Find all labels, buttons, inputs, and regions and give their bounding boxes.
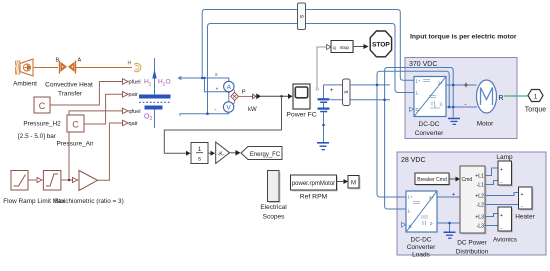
svg-text:s: s bbox=[300, 15, 306, 18]
svg-text:-K-: -K- bbox=[218, 151, 225, 157]
svg-text:qair: qair bbox=[129, 121, 138, 127]
svg-text:370 VDC: 370 VDC bbox=[409, 61, 437, 68]
svg-text:+: + bbox=[521, 192, 524, 198]
svg-text:-: - bbox=[501, 180, 503, 186]
svg-text:Heater: Heater bbox=[515, 214, 535, 221]
svg-text:2-: 2- bbox=[440, 101, 444, 106]
svg-text:-: - bbox=[215, 108, 217, 114]
svg-text:+: + bbox=[216, 86, 219, 92]
svg-text:Input torque is per electric m: Input torque is per electric motor bbox=[410, 34, 517, 41]
svg-text:Scopes: Scopes bbox=[263, 214, 285, 221]
svg-text:Ambient: Ambient bbox=[13, 81, 37, 88]
svg-text:B: B bbox=[56, 58, 60, 64]
svg-text:1-: 1- bbox=[416, 91, 420, 96]
svg-text:1-: 1- bbox=[408, 209, 412, 214]
svg-text:2+: 2+ bbox=[429, 195, 434, 200]
svg-text:STOP: STOP bbox=[372, 42, 390, 49]
svg-text:1+: 1+ bbox=[416, 78, 421, 83]
svg-text:Lamp: Lamp bbox=[496, 154, 513, 161]
svg-text:Converter: Converter bbox=[407, 244, 436, 251]
svg-text:Cmd: Cmd bbox=[462, 177, 473, 183]
svg-text:P: P bbox=[242, 90, 246, 96]
svg-text:+: + bbox=[500, 213, 503, 219]
svg-text:Pressure_H2: Pressure_H2 bbox=[23, 121, 61, 128]
svg-text:Converter: Converter bbox=[415, 130, 444, 137]
svg-text:s: s bbox=[198, 157, 201, 163]
svg-text:q: q bbox=[333, 46, 336, 51]
svg-text:Breaker Cmd: Breaker Cmd bbox=[417, 177, 447, 183]
svg-text:1+: 1+ bbox=[408, 195, 413, 200]
svg-text:+L1: +L1 bbox=[475, 174, 484, 180]
svg-text:C: C bbox=[72, 120, 79, 130]
svg-text:DC Power: DC Power bbox=[457, 240, 487, 247]
svg-text:M: M bbox=[351, 181, 356, 187]
svg-text:R: R bbox=[499, 95, 504, 102]
svg-text:+L2: +L2 bbox=[475, 194, 484, 200]
svg-text:+: + bbox=[452, 192, 455, 198]
svg-text:s: s bbox=[344, 91, 350, 94]
svg-text:pfuel: pfuel bbox=[129, 79, 141, 85]
svg-text:-L1: -L1 bbox=[477, 183, 485, 189]
svg-text:+L3: +L3 bbox=[475, 215, 484, 221]
svg-text:Convective Heat: Convective Heat bbox=[45, 82, 93, 89]
svg-text:Distribution: Distribution bbox=[456, 249, 489, 256]
svg-text:D: D bbox=[409, 224, 412, 229]
svg-text:H2O: H2O bbox=[158, 79, 171, 88]
svg-text:-L3: -L3 bbox=[477, 224, 485, 230]
svg-text:-: - bbox=[465, 102, 467, 108]
svg-text:Avionics: Avionics bbox=[493, 237, 518, 244]
svg-text:+: + bbox=[500, 167, 503, 173]
svg-text:C: C bbox=[39, 101, 46, 111]
svg-text:s: s bbox=[215, 72, 218, 78]
svg-text:-: - bbox=[501, 226, 503, 232]
svg-text:Transfer: Transfer bbox=[58, 91, 83, 98]
svg-text:Pressure_Air: Pressure_Air bbox=[57, 141, 95, 148]
svg-text:+: + bbox=[330, 88, 334, 94]
svg-text:D: D bbox=[416, 107, 419, 112]
svg-text:Motor: Motor bbox=[477, 121, 494, 128]
svg-text:2-: 2- bbox=[430, 221, 434, 226]
svg-text:pair: pair bbox=[129, 92, 138, 98]
svg-text:Torque: Torque bbox=[525, 107, 547, 114]
svg-text:qfuel: qfuel bbox=[129, 109, 141, 115]
svg-text:kW: kW bbox=[248, 107, 257, 113]
svg-text:Power FC: Power FC bbox=[286, 112, 316, 119]
svg-text:1: 1 bbox=[534, 94, 538, 101]
svg-text:Stoichiometric (ratio = 3): Stoichiometric (ratio = 3) bbox=[54, 198, 123, 205]
svg-text:O2: O2 bbox=[144, 114, 152, 123]
svg-text:H: H bbox=[128, 61, 132, 67]
svg-text:-: - bbox=[521, 204, 523, 210]
svg-text:-L2: -L2 bbox=[477, 203, 485, 209]
svg-text:[2.5 - 5.0] bar: [2.5 - 5.0] bar bbox=[18, 133, 57, 140]
svg-text:28 VDC: 28 VDC bbox=[401, 157, 426, 164]
svg-text:Loads: Loads bbox=[412, 252, 430, 259]
svg-text:A: A bbox=[78, 58, 82, 64]
svg-text:Ref RPM: Ref RPM bbox=[300, 194, 328, 201]
svg-text:power.rpmMotor: power.rpmMotor bbox=[292, 181, 335, 187]
svg-text:H2: H2 bbox=[144, 79, 152, 88]
svg-text:DC-DC: DC-DC bbox=[411, 237, 432, 244]
svg-text:DC-DC: DC-DC bbox=[419, 121, 440, 128]
svg-text:stop: stop bbox=[340, 45, 349, 51]
svg-text:Energy_FC: Energy_FC bbox=[250, 152, 281, 158]
svg-text:Electrical: Electrical bbox=[260, 204, 287, 211]
svg-text:2+: 2+ bbox=[438, 80, 443, 85]
